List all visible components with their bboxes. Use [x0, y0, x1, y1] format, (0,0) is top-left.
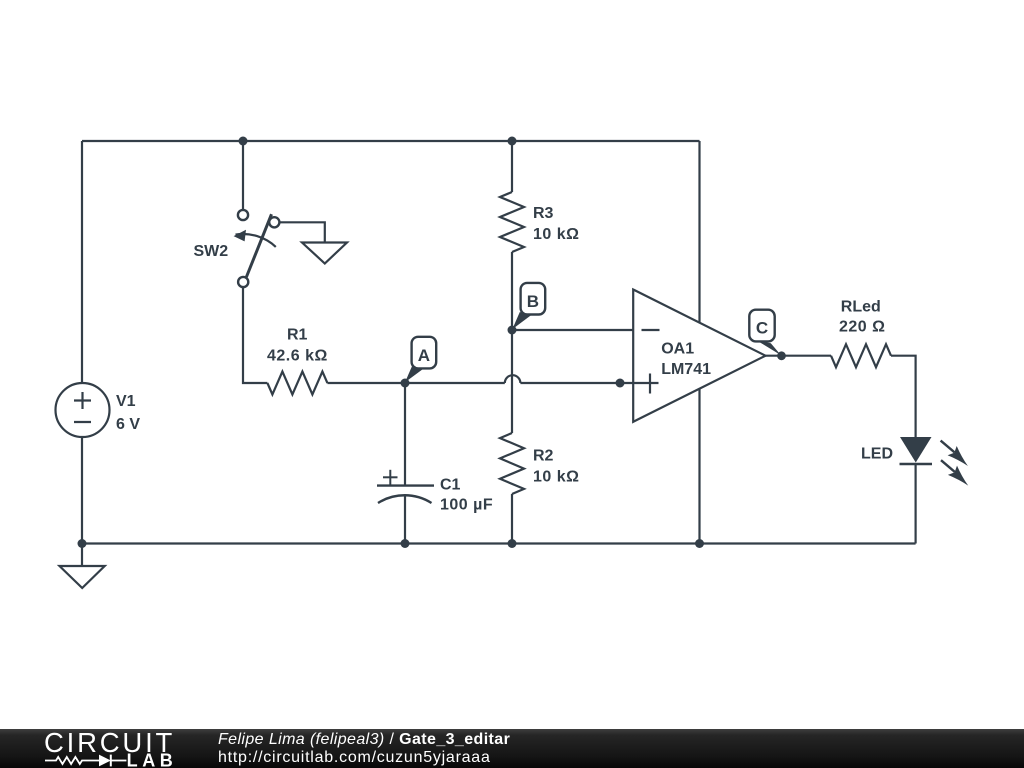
- svg-text:R3: R3: [533, 205, 554, 222]
- node junction top SW2: [239, 137, 248, 146]
- wire top rail: [82, 140, 700, 142]
- svg-text:R2: R2: [533, 448, 554, 465]
- wire C1 bottom lead: [404, 496, 406, 544]
- LED diode: [900, 437, 969, 486]
- svg-text:10 kΩ: 10 kΩ: [533, 226, 579, 243]
- svg-text:SW2: SW2: [194, 243, 229, 260]
- ground (bottom left): [60, 544, 105, 589]
- node A junction: [401, 379, 410, 388]
- wire R3 to node B: [511, 252, 513, 330]
- wire RLed to LED branch: [891, 356, 916, 437]
- node C junction: [777, 351, 786, 360]
- node B junction: [508, 326, 517, 335]
- wire bottom rail: [82, 542, 916, 544]
- resistor R2: [500, 433, 524, 494]
- node junction bottom C1: [401, 539, 410, 548]
- node B label: [512, 283, 545, 329]
- svg-text:R1: R1: [287, 327, 308, 344]
- node A label: [405, 337, 436, 383]
- node junction bottom R2: [508, 539, 517, 548]
- svg-text:10 kΩ: 10 kΩ: [533, 469, 579, 486]
- wire hop to op-amp plus pin: [520, 382, 658, 384]
- wire hop crossover arc: [505, 375, 521, 383]
- node C label: [749, 310, 781, 356]
- wire SW2 bottom to R1: [243, 288, 267, 384]
- footer bar: [0, 729, 1024, 768]
- wire op-amp output to RLed: [766, 355, 832, 357]
- wire C1 top lead: [404, 383, 406, 486]
- svg-text:42.6 kΩ: 42.6 kΩ: [267, 347, 328, 364]
- capacitor C1: [377, 470, 434, 503]
- wire node A to hop: [405, 382, 505, 384]
- LED emission arrow 1: [941, 441, 955, 453]
- wire R2 bottom lead: [511, 494, 513, 544]
- wire left rail upper: [81, 141, 83, 383]
- svg-text:LAB: LAB: [127, 751, 178, 768]
- node junction op-amp plus: [616, 379, 625, 388]
- svg-text:LM741: LM741: [661, 361, 711, 378]
- svg-text:100 µF: 100 µF: [440, 497, 493, 514]
- svg-text:A: A: [418, 346, 430, 365]
- node junction bottom V1: [78, 539, 87, 548]
- wire LED to bottom rail: [914, 465, 916, 544]
- node junction bottom right rail: [695, 539, 704, 548]
- switch SW2: [234, 210, 280, 287]
- wire node B to op-amp minus: [512, 329, 633, 331]
- svg-text:6 V: 6 V: [116, 416, 140, 433]
- resistor R3: [500, 192, 524, 252]
- wire SW2 throw to ground: [279, 222, 325, 242]
- voltage source V1: [56, 383, 110, 437]
- svg-text:V1: V1: [116, 393, 136, 410]
- wire R1 to node A: [327, 382, 405, 384]
- LED emission arrow 2: [941, 460, 955, 472]
- svg-text:C: C: [756, 319, 768, 338]
- wire SW2 top stub: [242, 141, 244, 210]
- resistor R1: [267, 372, 327, 395]
- wire R3 top lead: [511, 141, 513, 192]
- wire right rail: [698, 141, 700, 544]
- footer text: [218, 731, 510, 749]
- wire left rail lower: [81, 437, 83, 544]
- ground (SW2 throw): [302, 243, 347, 264]
- node junction top R3: [508, 137, 517, 146]
- svg-text:LED: LED: [861, 446, 893, 463]
- svg-text:B: B: [527, 292, 539, 311]
- svg-text:220 Ω: 220 Ω: [839, 319, 885, 336]
- op-amp OA1: [633, 290, 766, 422]
- wire node B to R2: [511, 330, 513, 433]
- svg-text:OA1: OA1: [661, 341, 694, 358]
- resistor RLed: [831, 344, 891, 367]
- svg-text:C1: C1: [440, 477, 461, 494]
- svg-text:RLed: RLed: [841, 299, 881, 316]
